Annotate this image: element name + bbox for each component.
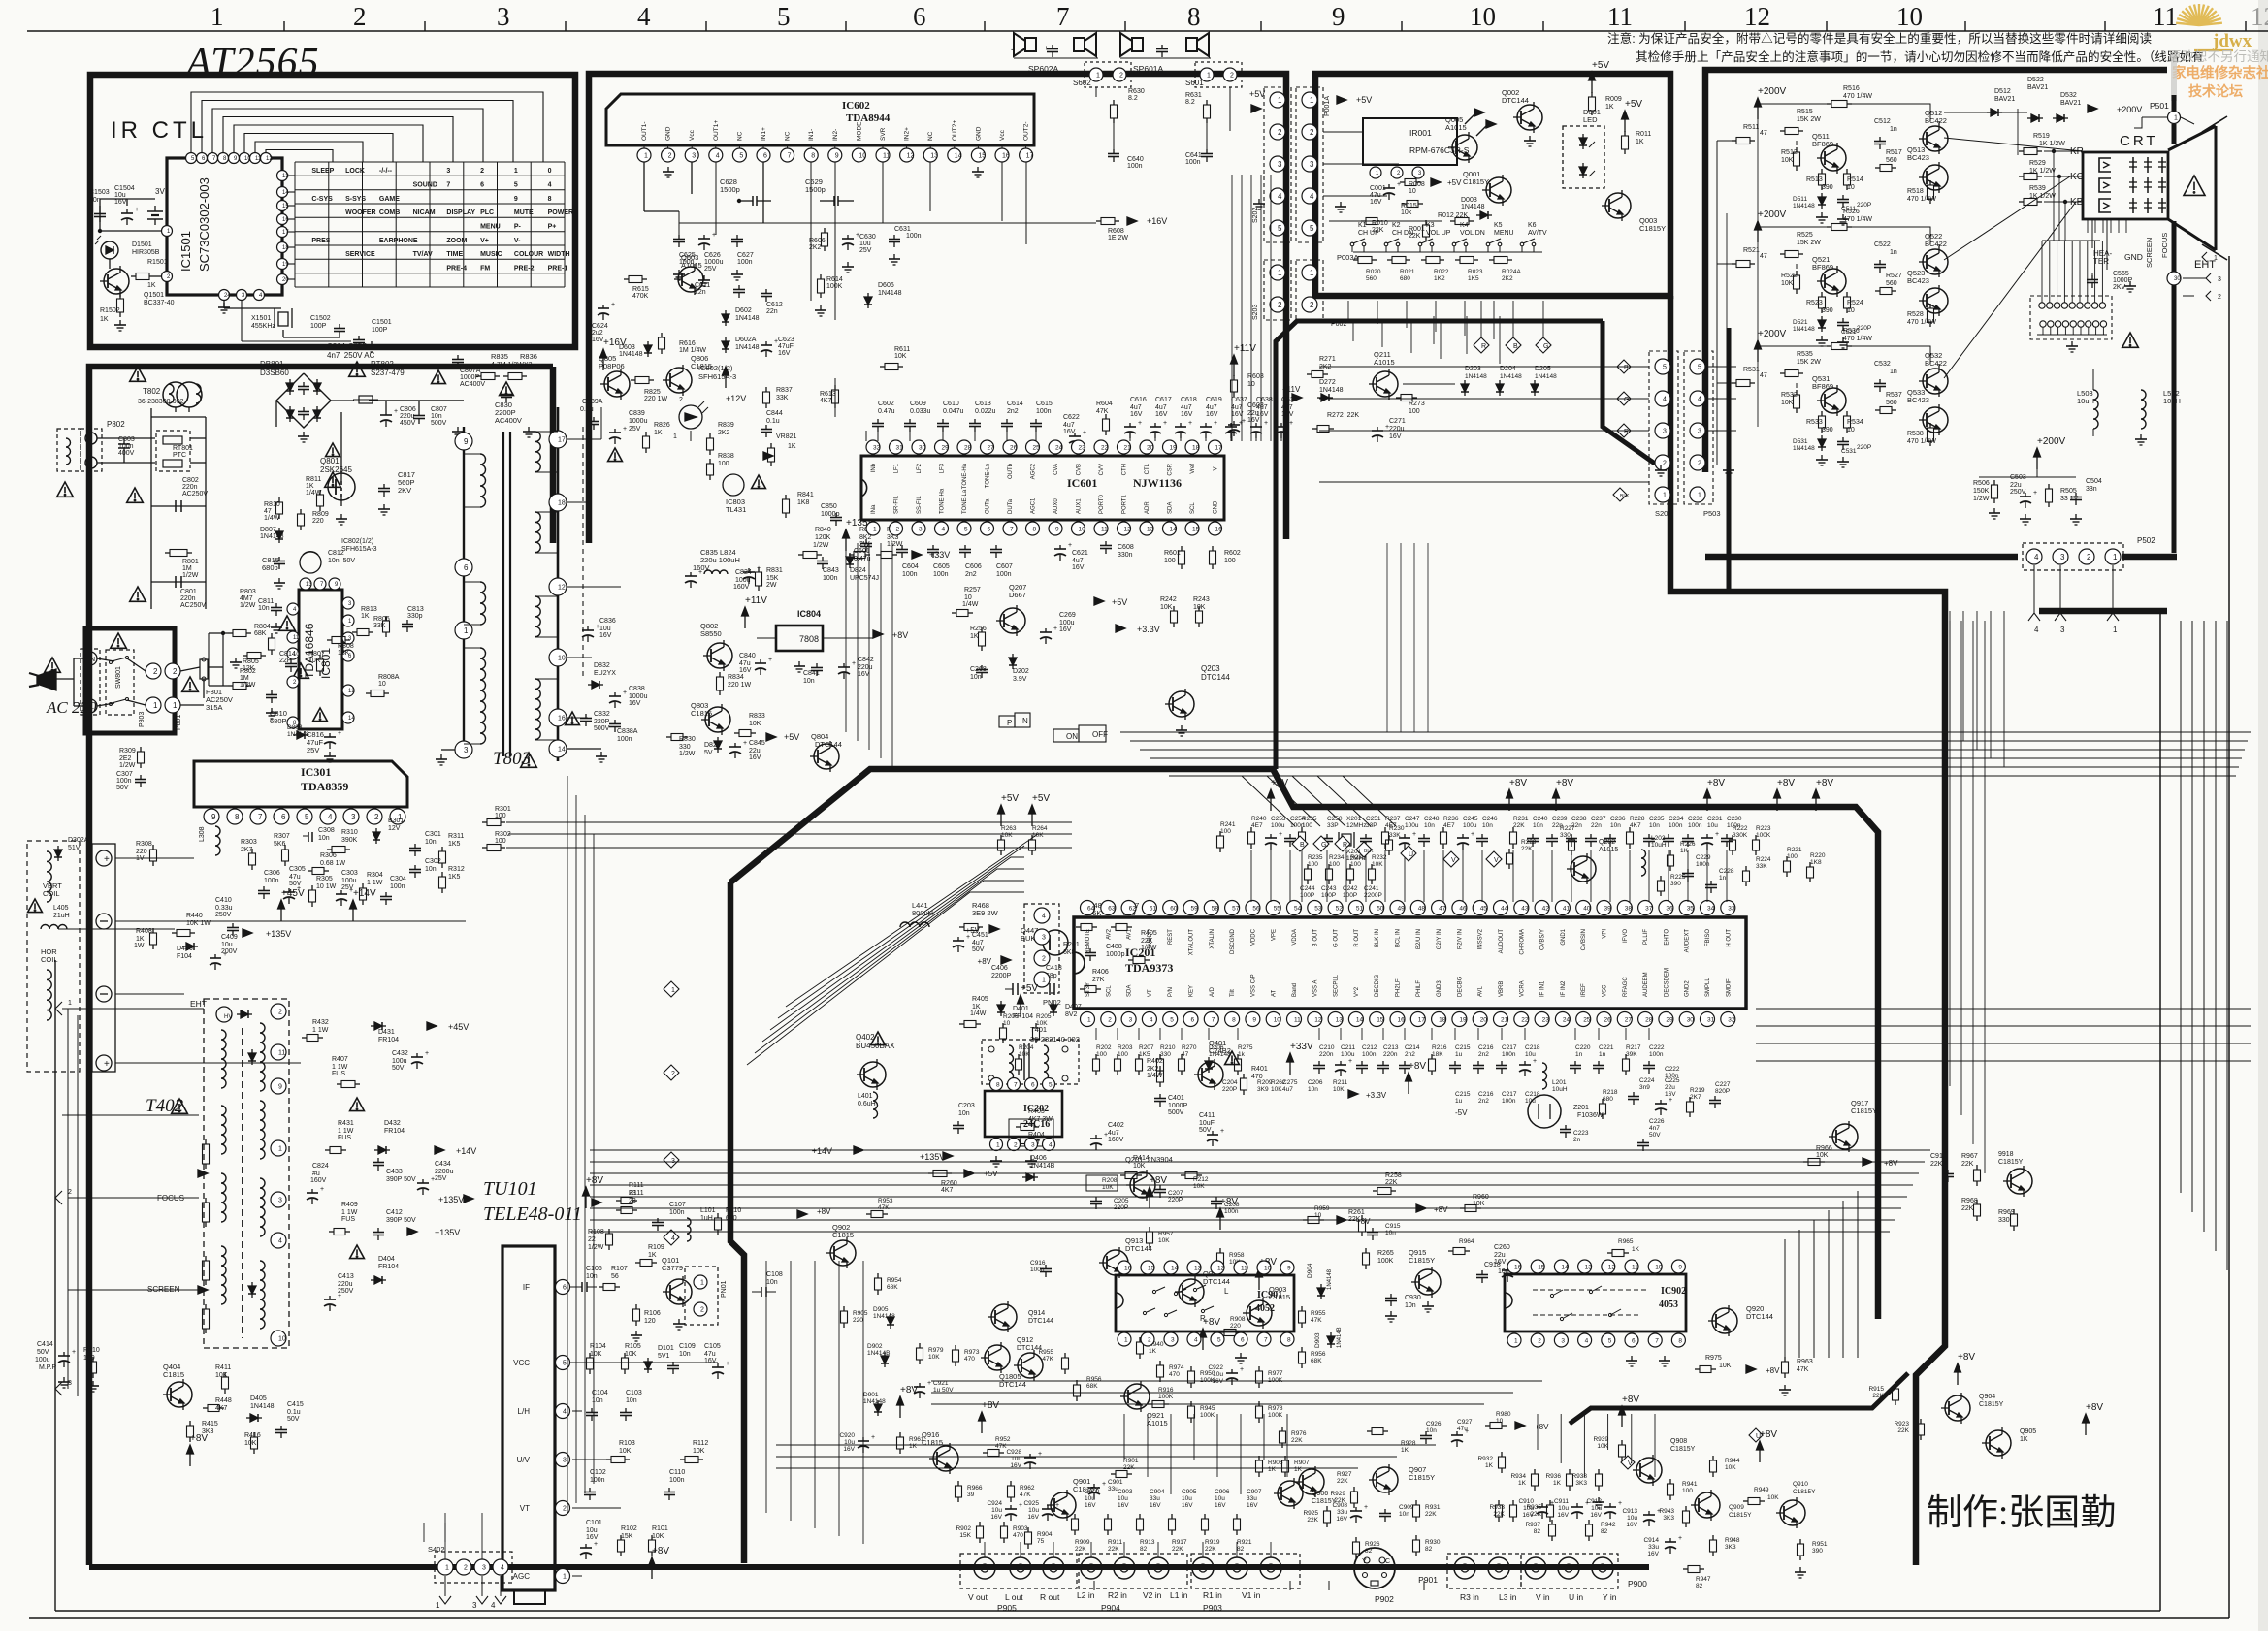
svg-text:S601: S601 (1185, 79, 1204, 87)
svg-text:R243: R243 (1193, 596, 1210, 603)
resistor R943 3K3 (1685, 1506, 1687, 1511)
svg-text:+: + (927, 1380, 931, 1387)
svg-text:VCC: VCC (513, 1359, 530, 1367)
yoke bracket connector (92, 844, 115, 1072)
svg-text:C234: C234 (1669, 816, 1684, 822)
svg-text:R531: R531 (1743, 367, 1760, 373)
svg-text:R919: R919 (1205, 1539, 1220, 1546)
svg-text:C241: C241 (1364, 885, 1379, 892)
svg-text:25V: 25V (704, 266, 717, 273)
transistor Q003 C1815Y (1605, 193, 1631, 218)
svg-text:51: 51 (1356, 905, 1364, 912)
capacitor C915 10n (1372, 1228, 1374, 1233)
svg-text:22K: 22K (1291, 1437, 1303, 1444)
svg-text:16: 16 (1002, 153, 1010, 160)
svg-text:5: 5 (964, 526, 968, 532)
svg-text:+8V: +8V (2086, 1402, 2103, 1413)
svg-text:1 1W: 1 1W (312, 1027, 329, 1034)
svg-text:R2 in: R2 in (1108, 1590, 1127, 1600)
svg-text:54: 54 (1294, 905, 1302, 912)
svg-text:3: 3 (2060, 626, 2065, 634)
svg-text:C804-C805: C804-C805 (327, 342, 367, 351)
IC1501 top pins 5-12 (186, 153, 197, 164)
diode D808 symbol (293, 734, 297, 736)
svg-text:14: 14 (1170, 526, 1178, 532)
svg-text:R966: R966 (1816, 1145, 1832, 1152)
CRT warning triangle (2184, 176, 2205, 195)
transistor Q921 A1015 (1124, 1384, 1150, 1409)
svg-text:1K: 1K (1605, 104, 1614, 111)
svg-text:BAV21: BAV21 (2027, 84, 2048, 91)
svg-text:ZOOM: ZOOM (446, 238, 467, 244)
IC202 top pins (990, 1078, 1003, 1091)
svg-text:L: L (1224, 1287, 1229, 1296)
svg-text:1 1W: 1 1W (367, 880, 383, 886)
svg-text:C845: C845 (749, 740, 765, 747)
svg-text:P902: P902 (1375, 1594, 1394, 1604)
svg-text:2: 2 (1119, 73, 1123, 80)
CRT board block border (1705, 70, 2167, 472)
svg-text:+: + (1242, 418, 1246, 425)
svg-text:1 1W: 1 1W (338, 1128, 354, 1135)
svg-text:450V: 450V (400, 420, 416, 427)
svg-text:IC902: IC902 (1661, 1286, 1686, 1297)
svg-text:16V: 16V (1206, 411, 1218, 418)
svg-text:5: 5 (514, 182, 518, 189)
wires P503 to CRT area horizontals (1319, 366, 1649, 368)
wire horizontals right low area (1756, 1008, 2251, 1010)
svg-text:100: 100 (1224, 558, 1236, 564)
svg-text:SOUND: SOUND (413, 182, 437, 189)
svg-text:5: 5 (739, 153, 743, 160)
svg-text:3E9 2W: 3E9 2W (972, 909, 999, 917)
svg-text:AC250V: AC250V (182, 491, 208, 497)
svg-text:Q202: Q202 (1599, 839, 1615, 846)
+8V arrow PN02 (1001, 956, 1011, 964)
svg-text:5: 5 (1608, 1337, 1612, 1344)
svg-text:C242: C242 (1343, 885, 1358, 892)
svg-text:1K: 1K (1401, 1447, 1409, 1454)
svg-text:24C16: 24C16 (1023, 1119, 1050, 1130)
svg-text:100n: 100n (1224, 1208, 1239, 1215)
svg-text:D432: D432 (384, 1120, 401, 1127)
svg-text:+200V: +200V (2117, 105, 2142, 114)
bottom thick bus line (89, 1564, 1649, 1570)
connector P503 column (1684, 351, 1713, 504)
wires cell Q511 (1938, 121, 1940, 126)
wire verticals audio block to IC601 (1231, 175, 1233, 441)
svg-text:OUT1+: OUT1+ (713, 120, 720, 141)
svg-text:L2 in: L2 in (1077, 1590, 1095, 1600)
svg-text:1N4148: 1N4148 (250, 1403, 275, 1410)
svg-text:BC337-40: BC337-40 (144, 300, 175, 306)
svg-text:C238: C238 (1571, 816, 1587, 822)
svg-text:C214: C214 (1405, 1044, 1420, 1051)
svg-text:10K: 10K (1032, 832, 1044, 839)
svg-text:C604: C604 (902, 563, 919, 570)
svg-text:R955: R955 (1038, 1349, 1053, 1356)
svg-text:56: 56 (611, 1273, 619, 1280)
svg-text:AV/TV: AV/TV (1528, 230, 1547, 237)
resistor R948 3K3 (1712, 1535, 1714, 1540)
svg-text:1: 1 (153, 701, 158, 710)
svg-text:10n: 10n (766, 1279, 778, 1286)
svg-text:C611: C611 (695, 282, 710, 289)
svg-text:AC400V: AC400V (495, 416, 522, 425)
svg-text:100: 100 (1118, 1051, 1128, 1058)
svg-text:P903: P903 (1203, 1603, 1222, 1613)
svg-text:5: 5 (305, 813, 309, 821)
svg-text:+: + (1220, 1128, 1224, 1135)
svg-text:25: 25 (1033, 444, 1041, 451)
wire long verticals below center block (765, 1261, 767, 1513)
svg-text:82: 82 (1425, 1546, 1433, 1553)
svg-text:47K: 47K (995, 1443, 1007, 1450)
svg-text:LF3: LF3 (940, 463, 946, 473)
svg-text:C251: C251 (1366, 816, 1381, 822)
svg-text:BC423: BC423 (1907, 396, 1929, 404)
svg-text:4: 4 (671, 1235, 675, 1242)
svg-text:10n 50V: 10n 50V (328, 558, 355, 564)
svg-text:N: N (90, 657, 95, 663)
svg-text:+8V: +8V (1766, 1366, 1780, 1375)
svg-text:10K: 10K (652, 1533, 664, 1540)
svg-text:R836: R836 (520, 352, 537, 361)
wires from IC1501 right pins to key matrix rows (288, 175, 295, 176)
svg-text:SDA: SDA (1127, 985, 1133, 997)
svg-text:33P: 33P (1327, 822, 1339, 829)
svg-text:+45V: +45V (281, 888, 305, 899)
svg-text:AV1: AV1 (1127, 928, 1133, 940)
svg-text:16: 16 (282, 217, 289, 223)
svg-text:10n: 10n (1649, 822, 1660, 829)
svg-text:+: + (623, 426, 627, 433)
svg-text:R937: R937 (1525, 1522, 1540, 1528)
svg-text:C919: C919 (1930, 1153, 1947, 1160)
svg-text:+: + (425, 1050, 429, 1057)
resistor R911 22K (1107, 1514, 1109, 1519)
flyback primary windings (221, 1030, 226, 1088)
svg-text:AC250V: AC250V (180, 602, 206, 609)
flyback pins (271, 1004, 286, 1019)
svg-text:25: 25 (1583, 1016, 1591, 1023)
EEPROM IC202 24C16 (985, 1091, 1062, 1137)
svg-text:AT: AT (1272, 989, 1278, 997)
svg-text:8: 8 (1287, 1336, 1291, 1343)
svg-text:R974: R974 (1169, 1364, 1184, 1371)
svg-text:1K: 1K (1553, 1480, 1562, 1487)
svg-text:IN2-: IN2- (832, 129, 839, 141)
svg-text:1: 1 (278, 1146, 282, 1153)
svg-text:RFAGC: RFAGC (1623, 977, 1629, 997)
svg-text:+: + (1163, 420, 1167, 427)
svg-text:10n: 10n (1385, 1230, 1396, 1236)
svg-text:SCREEN: SCREEN (2145, 238, 2154, 268)
svg-text:PH2LF: PH2LF (1396, 978, 1402, 997)
svg-text:100n: 100n (1127, 163, 1143, 170)
svg-text:R223: R223 (1756, 825, 1771, 832)
svg-text:47K: 47K (1020, 1492, 1031, 1498)
svg-text:38: 38 (1625, 905, 1633, 912)
svg-text:D1501: D1501 (132, 241, 152, 248)
svg-text:+: + (596, 624, 599, 630)
svg-text:64: 64 (1087, 905, 1095, 912)
svg-text:68K: 68K (254, 630, 267, 637)
svg-text:+: + (726, 1361, 729, 1367)
resistor R942 82 R937 82 (1551, 1520, 1553, 1524)
svg-text:R813: R813 (361, 606, 377, 613)
svg-text:24: 24 (224, 293, 231, 299)
svg-text:R968: R968 (1961, 1198, 1978, 1204)
diamond tags B G R BLK at S201 (1617, 360, 1631, 373)
svg-text:10K: 10K (1719, 1363, 1732, 1369)
svg-text:IR001: IR001 (1409, 128, 1432, 138)
svg-text:制作:张国勤: 制作:张国勤 (1927, 1493, 2116, 1533)
svg-text:IC602: IC602 (842, 100, 870, 112)
svg-text:R431: R431 (338, 1120, 354, 1127)
svg-text:22K: 22K (1425, 1511, 1437, 1518)
svg-text:VDDP: VDDP (1148, 929, 1153, 946)
svg-text:R105: R105 (625, 1343, 641, 1350)
svg-text:10u: 10u (1627, 1515, 1637, 1522)
svg-text:1/4W: 1/4W (306, 490, 322, 497)
svg-text:R976: R976 (1291, 1430, 1307, 1437)
svg-text:+: + (431, 1176, 435, 1183)
svg-text:100u: 100u (392, 1058, 407, 1065)
svg-text:31: 31 (896, 444, 904, 451)
svg-text:C304: C304 (390, 876, 406, 882)
svg-text:R264: R264 (1032, 825, 1048, 832)
svg-text:P502: P502 (2137, 536, 2155, 545)
svg-text:16V: 16V (778, 350, 791, 357)
svg-text:IC601: IC601 (1067, 476, 1097, 490)
svg-text:K4: K4 (1460, 222, 1469, 229)
svg-text:+8V: +8V (1535, 1423, 1549, 1431)
svg-text:1N414B: 1N414B (867, 1350, 891, 1357)
capacitor C925 10u (1047, 1505, 1049, 1509)
svg-text:IF: IF (523, 1283, 530, 1292)
svg-text:10u: 10u (1525, 1051, 1536, 1058)
svg-text:R608: R608 (1108, 228, 1124, 235)
svg-text:SMDIF: SMDIF (1726, 978, 1732, 997)
svg-text:C203: C203 (958, 1103, 975, 1109)
svg-text:7: 7 (1014, 1081, 1018, 1088)
svg-text:SC73C0302-003: SC73C0302-003 (197, 177, 211, 272)
svg-text:H OUT: H OUT (1726, 929, 1732, 947)
svg-text:K1: K1 (1358, 222, 1367, 229)
svg-text:C627: C627 (737, 252, 754, 259)
svg-text:4u7: 4u7 (1072, 558, 1084, 564)
svg-text:+5V: +5V (1112, 597, 1127, 607)
svg-text:10u: 10u (1118, 1495, 1128, 1502)
T803 core (502, 432, 504, 756)
svg-text:XTALOUT: XTALOUT (1189, 929, 1195, 956)
svg-text:C102: C102 (590, 1469, 606, 1476)
capacitor C801 220n AC250V (151, 581, 206, 583)
+8V arrow bottom left (189, 1453, 191, 1466)
svg-text:INb: INb (871, 463, 877, 472)
svg-text:2SK2645: 2SK2645 (320, 465, 352, 474)
svg-text:24: 24 (1055, 444, 1063, 451)
svg-text:100P: 100P (310, 323, 327, 330)
svg-text:1: 1 (68, 1000, 72, 1007)
svg-text:OUT1-: OUT1- (641, 122, 648, 142)
+14V +135V arrows driver (854, 1146, 863, 1154)
svg-text:C641: C641 (1185, 152, 1202, 159)
svg-text:16V: 16V (599, 632, 612, 639)
svg-text:C1815: C1815 (691, 362, 712, 370)
svg-text:47u: 47u (1457, 1426, 1468, 1432)
svg-text:1K: 1K (970, 633, 979, 640)
svg-text:10n: 10n (958, 1110, 970, 1117)
svg-text:16V: 16V (1557, 1512, 1569, 1519)
svg-text:C602: C602 (878, 401, 894, 407)
svg-text:DISPLAY: DISPLAY (446, 209, 475, 216)
svg-text:R109: R109 (648, 1244, 664, 1251)
cell feedback verticals (1716, 141, 1718, 465)
svg-text:1n: 1n (1599, 1051, 1606, 1058)
svg-text:2n2: 2n2 (965, 571, 977, 578)
svg-text:NC: NC (785, 131, 792, 141)
svg-text:+: + (1068, 542, 1072, 549)
diagonal wires S201 to P002 (1474, 337, 1489, 353)
svg-text:R104: R104 (590, 1343, 606, 1350)
svg-text:R305: R305 (316, 876, 333, 882)
svg-text:32: 32 (1728, 1016, 1735, 1023)
svg-text:C813: C813 (407, 606, 424, 613)
resistor R956 68K (1301, 1347, 1303, 1352)
svg-text:R521: R521 (1743, 247, 1760, 254)
svg-text:IFVO: IFVO (1623, 929, 1629, 943)
svg-text:+: + (2033, 490, 2037, 497)
resistor R939 10K (1621, 1440, 1623, 1445)
svg-text:R526: R526 (1843, 209, 1860, 215)
svg-text:R901: R901 (1123, 1458, 1139, 1464)
svg-text:D206: D206 (1209, 1044, 1224, 1051)
IC1501 left pins (162, 226, 173, 237)
capacitor C641 100n (1206, 149, 1208, 154)
svg-text:68K: 68K (887, 1284, 898, 1291)
+135V arrow mid (243, 929, 252, 937)
wires S201 to CRT cells (1705, 366, 1736, 368)
resistor R931 22K (1415, 1500, 1417, 1505)
svg-text:V: V (1494, 857, 1499, 864)
svg-text:+: + (1044, 44, 1049, 52)
svg-text:R306: R306 (320, 852, 337, 859)
gnd pin 14 wire (567, 748, 601, 750)
svg-text:33u: 33u (1648, 1544, 1659, 1551)
svg-text:6: 6 (763, 153, 767, 160)
svg-text:+: + (1678, 1535, 1682, 1542)
svg-text:330p: 330p (407, 613, 423, 620)
svg-text:R011: R011 (1636, 131, 1651, 138)
svg-text:10n: 10n (89, 197, 101, 204)
wire horizontals above bottom connectors (776, 1444, 1436, 1446)
svg-text:BF869: BF869 (1812, 263, 1833, 272)
resistor R825 220 1W (631, 379, 635, 381)
svg-text:15: 15 (1377, 1016, 1384, 1023)
diode D905 1N4148 (890, 1313, 891, 1317)
svg-text:1K: 1K (648, 1252, 657, 1259)
svg-text:4u7: 4u7 (1130, 404, 1142, 411)
capacitor C913 10u 16V (1648, 1511, 1650, 1515)
IR001 pins (1370, 167, 1381, 178)
resistor R901 22K (1111, 1473, 1116, 1475)
svg-text:R615: R615 (632, 286, 649, 293)
resistors right column R915 R923 (1895, 1384, 1896, 1389)
svg-text:100: 100 (1329, 861, 1340, 868)
svg-text:R263: R263 (1001, 825, 1017, 832)
wires CRT block to lower bus (1949, 611, 1951, 732)
svg-text:39: 39 (1604, 905, 1612, 912)
svg-text:C630: C630 (859, 234, 876, 241)
svg-text:4053: 4053 (1659, 1299, 1678, 1310)
svg-text:R513: R513 (1806, 176, 1823, 183)
svg-text:D903: D903 (1314, 1332, 1321, 1348)
svg-text:R614: R614 (826, 276, 843, 283)
svg-text:TDA8944: TDA8944 (846, 112, 891, 124)
svg-text:15K: 15K (621, 1533, 633, 1540)
vertical coil (47, 851, 51, 902)
wire stubs S402 to tuner bus (423, 1523, 425, 1542)
svg-text:1M 1/4W: 1M 1/4W (679, 347, 706, 354)
svg-text:16V: 16V (1063, 429, 1076, 435)
svg-text:D904: D904 (1307, 1263, 1313, 1278)
svg-text:R OUT: R OUT (1354, 929, 1360, 947)
IC U IC301 TDA8359 vertical output (194, 761, 407, 807)
resistor R978 100K (1258, 1401, 1260, 1406)
transistor Q913 DTC144 (1103, 1250, 1128, 1275)
svg-text:R613: R613 (820, 391, 836, 398)
svg-text:2: 2 (2218, 294, 2221, 301)
svg-text:C902: C902 (1085, 1489, 1100, 1495)
svg-text:+8V: +8V (1777, 778, 1795, 788)
svg-text:27: 27 (988, 444, 995, 451)
svg-text:C909: C909 (1399, 1504, 1414, 1511)
svg-text:2: 2 (1108, 1016, 1112, 1023)
svg-text:4: 4 (716, 153, 720, 160)
svg-text:9: 9 (1055, 526, 1059, 532)
svg-text:16: 16 (1124, 1265, 1132, 1271)
svg-text:C216: C216 (1478, 1091, 1494, 1098)
svg-text:Z201: Z201 (1573, 1105, 1589, 1111)
svg-text:1n: 1n (1575, 1051, 1583, 1058)
IC601 bottom pins 1-16 (866, 522, 880, 535)
svg-text:IC202: IC202 (1023, 1104, 1049, 1114)
svg-text:A1015: A1015 (1147, 1419, 1168, 1427)
svg-text:+5V: +5V (966, 926, 981, 935)
svg-text:C1815Y: C1815Y (1729, 1512, 1752, 1519)
svg-text:1N4148: 1N4148 (878, 290, 902, 297)
svg-text:1K: 1K (788, 443, 796, 450)
svg-text:1u: 1u (1455, 1051, 1463, 1058)
svg-text:+200V: +200V (1758, 86, 1787, 97)
svg-text:+8V: +8V (1884, 1159, 1898, 1168)
svg-text:150K: 150K (1973, 488, 1990, 495)
svg-text:26: 26 (1604, 1016, 1612, 1023)
P002 pins (1296, 260, 1323, 320)
svg-text:19: 19 (1170, 444, 1178, 451)
svg-text:100K: 100K (1268, 1377, 1283, 1384)
svg-text:R024A: R024A (1502, 269, 1522, 275)
svg-text:100n: 100n (390, 883, 405, 890)
svg-text:C609: C609 (910, 401, 926, 407)
svg-text:57: 57 (1232, 905, 1240, 912)
svg-text:4: 4 (548, 182, 552, 189)
IC602 pins 1-17 (637, 148, 651, 162)
svg-text:Q908: Q908 (1670, 1438, 1687, 1445)
svg-text:PRES: PRES (311, 238, 330, 244)
